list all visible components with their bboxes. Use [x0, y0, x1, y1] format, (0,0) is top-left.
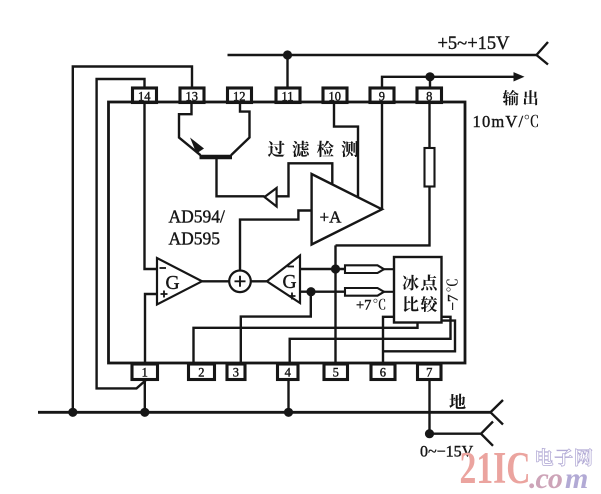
- svg-text:12: 12: [233, 90, 246, 104]
- label AD594/: [169, 207, 226, 227]
- svg-text:10: 10: [329, 90, 342, 104]
- wire pin 7 to -15V line: [428, 380, 430, 434]
- wire buffer to op-amp upper input: [277, 163, 333, 196]
- label +7C: [356, 298, 385, 314]
- svg-text:14: 14: [138, 90, 151, 104]
- wire G2 inverting input to R1: [300, 268, 345, 270]
- svg-text:G: G: [166, 273, 180, 294]
- amplifier G1: [157, 258, 202, 305]
- wire G2 non-inverting input to R2: [300, 291, 345, 293]
- node junction +V at pin 11: [283, 50, 292, 59]
- wire +V rail: [228, 54, 537, 56]
- watermark .com: [529, 462, 588, 494]
- node junction ground at outer loop: [68, 408, 77, 417]
- node junction ground at pin 1: [140, 408, 149, 417]
- label 地 ground: [449, 394, 465, 409]
- pin 1: [132, 364, 158, 380]
- pin 6: [371, 364, 395, 380]
- off-page connector +V: [537, 42, 549, 65]
- wire pin 14 to G1 inverting input: [145, 103, 158, 270]
- svg-text:7: 7: [426, 366, 432, 380]
- svg-text:m: m: [565, 462, 588, 494]
- watermark 21IC: [460, 443, 531, 493]
- wire pin 1 to ground: [144, 380, 146, 413]
- pin 11: [276, 88, 300, 104]
- wire summing node to G2 output: [251, 280, 267, 282]
- wire pin 6 loop to comparator right: [383, 321, 455, 352]
- node junction -15V: [425, 429, 434, 438]
- wire Q1 base to buffer: [217, 159, 265, 196]
- pin 7: [418, 364, 442, 380]
- node junction pin3 net: [306, 287, 315, 296]
- svg-text:1: 1: [142, 366, 148, 380]
- svg-text:+A: +A: [320, 208, 343, 227]
- pin 14: [133, 88, 157, 104]
- svg-text:9: 9: [379, 90, 385, 104]
- svg-text:+7: +7: [356, 298, 371, 314]
- svg-text:AD594/: AD594/: [169, 207, 226, 227]
- svg-text:4: 4: [285, 366, 292, 380]
- pin 2: [189, 364, 215, 380]
- wire pin 14 to pin 1 loop: [97, 79, 146, 388]
- svg-text:5: 5: [333, 366, 339, 380]
- wire pin 10 to op-amp: [334, 103, 358, 198]
- wire ground rail: [38, 411, 491, 414]
- svg-text:13: 13: [186, 90, 199, 104]
- svg-text:+5~+15V: +5~+15V: [438, 34, 511, 54]
- label +5~+15V: [438, 34, 511, 54]
- svg-text:8: 8: [426, 90, 432, 104]
- summing node circle: [229, 271, 251, 293]
- wire G1 output to summing node: [202, 280, 229, 282]
- wire pin 8 to R3: [428, 103, 430, 149]
- svg-text:.co: .co: [529, 462, 562, 494]
- label 输出: [503, 90, 538, 106]
- pin 3: [227, 364, 245, 380]
- op-amp +A: [312, 174, 382, 245]
- svg-text:21IC: 21IC: [460, 443, 531, 493]
- wire R3 to feedback line: [336, 187, 430, 246]
- wire pin 8 to output line: [429, 77, 431, 89]
- node junction output at pin 8: [425, 72, 434, 81]
- svg-text:6: 6: [380, 366, 386, 380]
- off-page connector ground: [491, 400, 504, 425]
- transistor Q1 base bar: [200, 155, 233, 160]
- wire pin 3 to G2 net: [241, 292, 311, 364]
- svg-text:2: 2: [198, 366, 204, 380]
- svg-text:AD595: AD595: [169, 229, 221, 249]
- pin 10: [323, 88, 347, 104]
- svg-text:10mV/: 10mV/: [473, 112, 525, 131]
- pin 8: [417, 88, 442, 104]
- pin 9: [370, 88, 394, 104]
- label 0~-15V: [420, 444, 474, 461]
- wire pin 9 to op-amp output: [381, 103, 383, 209]
- svg-text:11: 11: [282, 90, 294, 104]
- wire op-amp lower input to summing node: [240, 211, 312, 271]
- pin 13: [180, 88, 204, 104]
- transistor Q1 lead from pin 13: [179, 103, 201, 156]
- watermark 电子网: [537, 448, 592, 466]
- wire pin 9 to output line: [382, 77, 517, 89]
- wire feedback to pin 5: [334, 245, 336, 363]
- wire pin 4 to comparator right: [290, 317, 451, 364]
- node junction ground at pin 4: [284, 408, 293, 417]
- svg-text:−7: −7: [446, 294, 462, 310]
- off-page connector -15V: [481, 422, 493, 446]
- wire pin 6 to comparator left: [383, 317, 394, 364]
- wire -15V line: [430, 433, 482, 435]
- amplifier G2: [267, 256, 300, 304]
- IC body AD594/AD595 outline: [109, 102, 466, 363]
- resistor R1: [345, 265, 394, 273]
- label AD595: [169, 229, 221, 249]
- wire pin 2 to comparator bottom: [194, 322, 418, 364]
- svg-text:G: G: [283, 272, 297, 293]
- label 过滤检测: [268, 141, 358, 158]
- wire pin 4 to ground: [287, 380, 289, 413]
- arrowhead output: [514, 72, 525, 81]
- node junction feedback: [331, 264, 340, 273]
- transistor Q1 emitter arrow: [190, 138, 204, 154]
- buffer amplifier triangle: [265, 188, 277, 207]
- label 10mV/C: [473, 112, 539, 131]
- resistor R3: [425, 148, 435, 187]
- ice point comparator box: [394, 257, 442, 323]
- wire pin 11 to +V rail: [286, 55, 288, 89]
- pin 4: [278, 364, 299, 380]
- wire pin 13 outer loop: [73, 67, 192, 413]
- svg-text:3: 3: [233, 366, 239, 380]
- transistor Q1 lead from pin 12: [231, 103, 250, 156]
- wire pin 1 to G1 non-inverting input: [145, 294, 157, 364]
- label -7C rotated: [446, 279, 462, 310]
- pin 12: [228, 88, 252, 104]
- resistor R2: [345, 288, 394, 296]
- pin 5: [324, 364, 348, 380]
